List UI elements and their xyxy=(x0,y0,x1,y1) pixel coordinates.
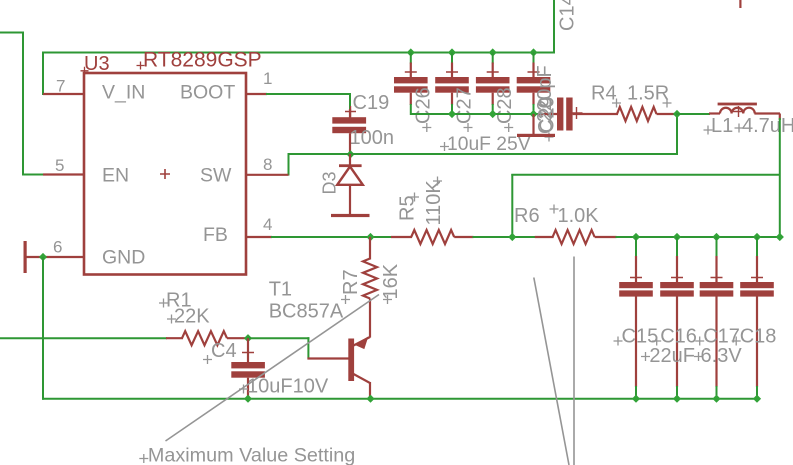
junction T1 collector on GND xyxy=(366,395,374,403)
capacitor C20 top lead green xyxy=(533,53,535,64)
C26 label cross xyxy=(422,123,431,132)
capacitor C16 plus mark xyxy=(671,272,683,284)
C15 label cross xyxy=(614,337,623,346)
wire cap bank bottom horizontal xyxy=(411,113,540,115)
wire FB net from pin 4 xyxy=(271,236,392,238)
resistor R4 right lead xyxy=(657,113,679,115)
wire feedback horizontal xyxy=(511,174,780,176)
svg-text:22K: 22K xyxy=(174,306,210,328)
inductor L1 bar xyxy=(718,103,757,106)
svg-text:8: 8 xyxy=(263,155,272,174)
ground bar at pin 6 xyxy=(24,241,27,273)
wire feedback vertical left xyxy=(511,174,513,238)
wire EN net top-left horizontal xyxy=(0,32,23,34)
C16 label cross xyxy=(652,337,661,346)
wire BOOT net vertical to C19 xyxy=(349,93,351,110)
svg-text:10uF10V: 10uF10V xyxy=(247,376,329,398)
capacitor C28 top lead green xyxy=(492,53,494,64)
capacitor C16 bottom lead green xyxy=(676,386,678,399)
capacitor C17 plus mark xyxy=(711,272,723,284)
R1 label cross xyxy=(159,299,168,308)
capacitor C4 bottom lead xyxy=(247,378,249,399)
pin 1 stub of U3 xyxy=(246,93,267,95)
ground bar below D3 xyxy=(331,214,370,217)
capacitor C20 bottom lead green xyxy=(533,104,535,115)
annotation pointer line Maximum Value Setting xyxy=(166,295,380,442)
capacitor C15 bottom plate xyxy=(619,290,653,296)
junction VIN at C26 xyxy=(407,48,415,56)
svg-text:1.5R: 1.5R xyxy=(627,83,669,105)
capacitor C17 top lead green xyxy=(716,237,718,257)
capacitor C16 top lead xyxy=(676,256,678,283)
C28 label cross xyxy=(504,123,513,132)
wire SW net elbow down to pin 8 xyxy=(288,153,290,176)
svg-text:4: 4 xyxy=(263,215,272,234)
1.0K label cross xyxy=(550,205,559,214)
capacitor C29 left lead xyxy=(539,113,558,115)
10uF25V label cross xyxy=(440,142,449,151)
svg-text:C19: C19 xyxy=(353,92,390,114)
capacitor C27 bottom plate xyxy=(435,86,469,92)
transistor T1 emitter arrow xyxy=(356,338,368,349)
wire SW net horizontal xyxy=(289,153,678,155)
capacitor C15 bottom lead green xyxy=(635,386,637,399)
resistor R5 right lead xyxy=(454,236,473,238)
resistor R7 top lead xyxy=(369,237,371,260)
wire GND net left vertical xyxy=(42,257,44,400)
capacitor C26 bottom plate xyxy=(394,86,428,92)
junction C18 bottom on GND xyxy=(753,395,761,403)
C18 label cross xyxy=(732,337,741,346)
junction output right corner xyxy=(776,233,784,241)
capacitor C18 bottom plate xyxy=(740,290,774,296)
R7 label cross xyxy=(341,295,350,304)
transistor T1 collector lead xyxy=(369,382,371,400)
capacitor C27 top lead green xyxy=(451,53,453,64)
C17 label cross xyxy=(695,337,704,346)
annotation pointer line vertical xyxy=(573,257,575,465)
wire FB mid segment xyxy=(473,236,536,238)
wire base net horizontal xyxy=(247,337,309,339)
wire EN net to pin 5 xyxy=(22,174,44,176)
capacitor C28 bottom plate xyxy=(476,86,510,92)
wire SW net rise to R4 output xyxy=(676,114,678,155)
resistor R5 body xyxy=(411,230,454,244)
svg-text:C14: C14 xyxy=(557,0,579,31)
capacitor C29 plus mark xyxy=(571,107,583,119)
svg-text:BC857A: BC857A xyxy=(269,301,344,323)
C4 label cross xyxy=(203,355,212,364)
svg-text:T1: T1 xyxy=(269,279,292,301)
diode D3 top lead xyxy=(349,154,351,165)
resistor R1 body xyxy=(182,331,227,345)
6.3V label cross xyxy=(694,352,703,361)
svg-text:R6: R6 xyxy=(514,205,540,227)
junction SW net below C19 xyxy=(346,150,354,158)
junction VIN at C20 xyxy=(529,48,537,56)
10uF10V label cross xyxy=(239,385,248,394)
capacitor C29 right plate xyxy=(566,98,572,131)
capacitor C29 left plate xyxy=(557,98,563,131)
capacitor C26 top plate xyxy=(394,77,428,83)
wire VIN net horizontal above U3 xyxy=(42,52,555,54)
capacitor C28 top plate xyxy=(476,77,510,83)
transistor T1 collector segment xyxy=(354,374,371,383)
capacitor C27 bottom lead xyxy=(451,93,453,105)
svg-text:1: 1 xyxy=(263,69,272,88)
R4 label cross xyxy=(612,99,621,108)
svg-text:D3: D3 xyxy=(320,171,340,194)
junction VIN at C28 xyxy=(489,48,497,56)
svg-text:Maximum Value Setting: Maximum Value Setting xyxy=(148,445,355,465)
resistor R6 right lead xyxy=(595,236,617,238)
capacitor C27 top plate xyxy=(435,77,469,83)
R5 label cross xyxy=(410,193,419,202)
capacitor C15 top plate xyxy=(619,282,653,288)
pin 6 stub of U3 xyxy=(25,256,84,258)
capacitor C19 plus mark xyxy=(345,106,356,117)
capacitor C16 bottom lead xyxy=(676,297,678,388)
capacitor C26 top lead green xyxy=(410,53,412,64)
junction C17 bottom on GND xyxy=(712,395,720,403)
capacitor C18 bottom lead green xyxy=(756,386,758,399)
capacitor C27 top lead xyxy=(451,63,453,78)
resistor R5 left lead xyxy=(391,236,412,238)
capacitor C15 plus mark xyxy=(630,272,642,284)
110K label cross xyxy=(433,177,442,186)
junction FB at feedback xyxy=(508,233,516,241)
16K label cross xyxy=(383,295,392,304)
svg-text:220pF: 220pF xyxy=(534,65,556,122)
pin 8 stub of U3 xyxy=(246,174,289,176)
red tick top edge xyxy=(739,0,741,8)
diode D3 anode lead xyxy=(349,185,351,215)
junction cap bank bottom xyxy=(489,110,497,118)
pin 4 stub of U3 xyxy=(246,236,272,238)
inductor L1 right lead xyxy=(754,112,780,114)
junction VIN at C27 xyxy=(448,48,456,56)
C20 label cross xyxy=(545,133,554,142)
svg-text:C27: C27 xyxy=(454,87,476,124)
wire output right vertical red part xyxy=(779,114,781,121)
capacitor C18 plus mark xyxy=(751,272,763,284)
capacitor C17 top plate xyxy=(700,282,734,288)
wire GND net bottom horizontal xyxy=(42,398,757,400)
svg-text:6: 6 xyxy=(53,238,62,257)
IC U3 origin cross xyxy=(81,67,89,75)
capacitor C16 top lead green xyxy=(676,237,678,257)
diode D3 triangle xyxy=(337,167,363,185)
junction cap bank bottom xyxy=(529,110,537,118)
svg-text:GND: GND xyxy=(102,247,145,269)
capacitor C28 top lead xyxy=(492,63,494,78)
junction output at C18 xyxy=(753,233,761,241)
junction output at C16 xyxy=(673,233,681,241)
wire to C14 (off-sheet) riser xyxy=(553,0,555,54)
annotation pointer line slanted xyxy=(534,278,569,465)
svg-text:C28: C28 xyxy=(494,87,516,124)
resistor R7 bottom lead xyxy=(369,299,371,338)
svg-text:100n: 100n xyxy=(350,127,395,149)
svg-text:L1: L1 xyxy=(711,115,733,137)
svg-text:BOOT: BOOT xyxy=(180,82,235,104)
inductor L1 coils xyxy=(720,108,755,114)
svg-text:R4: R4 xyxy=(591,83,617,105)
capacitor C15 top lead xyxy=(635,256,637,283)
svg-text:7: 7 xyxy=(56,77,65,96)
wire output right vertical xyxy=(779,118,781,238)
wire R1 net left xyxy=(0,337,167,339)
capacitor C26 top lead xyxy=(410,63,412,78)
svg-text:10uF 25V: 10uF 25V xyxy=(447,134,531,155)
inductor L1 cross xyxy=(733,106,744,117)
ground bar below cap bank xyxy=(517,134,555,137)
junction at pin 6 xyxy=(39,253,47,261)
capacitor C17 bottom lead xyxy=(715,297,717,388)
capacitor C19 bottom lead xyxy=(349,133,351,154)
22K label cross xyxy=(167,315,176,324)
capacitor C18 top lead xyxy=(756,256,758,283)
capacitor C28 bottom lead xyxy=(492,93,494,105)
transistor T1 base bar xyxy=(348,339,354,382)
diode D3 cathode bar xyxy=(339,164,362,167)
resistor R1 left lead xyxy=(166,337,183,339)
resistor R7 body xyxy=(363,259,377,299)
inductor L1 left lead xyxy=(709,112,720,114)
capacitor C19 top plate xyxy=(332,117,366,123)
capacitor C4 plus mark xyxy=(242,347,254,359)
svg-text:4.7uH: 4.7uH xyxy=(742,115,793,137)
svg-text:C4: C4 xyxy=(211,340,237,362)
capacitor C17 bottom plate xyxy=(700,290,734,296)
capacitor C27 plus mark xyxy=(446,66,458,78)
4.7uH label cross xyxy=(735,124,744,133)
IC center cross xyxy=(160,169,170,179)
svg-text:1.0K: 1.0K xyxy=(558,205,600,227)
C27 label cross xyxy=(464,123,473,132)
svg-text:R7: R7 xyxy=(340,269,362,295)
wire base net vertical xyxy=(307,337,309,358)
wire R4 junction to L1 xyxy=(676,113,710,115)
junction FB at R7 xyxy=(366,233,374,241)
junction output at C15 xyxy=(632,233,640,241)
resistor R6 body xyxy=(553,230,595,244)
capacitor C18 top lead green xyxy=(756,237,758,257)
svg-text:5: 5 xyxy=(55,156,64,175)
capacitor C28 plus mark xyxy=(487,66,499,78)
IC value origin cross xyxy=(137,62,145,70)
IC U3 RT8289GSP body xyxy=(84,73,246,275)
ground lead below cap bank xyxy=(532,114,534,134)
svg-text:C18: C18 xyxy=(740,326,777,348)
capacitor C19 top lead xyxy=(349,109,351,118)
junction R1 C4 base xyxy=(244,334,252,342)
capacitor C26 plus mark xyxy=(405,66,417,78)
1.5R label cross xyxy=(663,99,672,108)
wire VIN net drop to pin 7 xyxy=(42,52,44,96)
capacitor C28 bottom lead green xyxy=(492,104,494,115)
pin 5 stub of U3 xyxy=(43,173,84,175)
capacitor C16 bottom plate xyxy=(660,290,694,296)
capacitor C20 bottom lead xyxy=(532,93,534,105)
22uF label cross xyxy=(641,352,650,361)
capacitor C4 top plate xyxy=(231,362,265,368)
svg-text:110K: 110K xyxy=(423,180,445,226)
svg-text:U3: U3 xyxy=(84,53,110,75)
capacitor C27 bottom lead green xyxy=(451,104,453,115)
resistor R4 body xyxy=(617,107,657,121)
L1 label cross xyxy=(704,126,713,135)
transistor T1 emitter segment xyxy=(354,337,371,346)
capacitor C20 top plate xyxy=(517,77,551,83)
Maximum label cross xyxy=(139,454,148,463)
capacitor C20 top lead xyxy=(532,63,534,78)
capacitor C26 bottom lead xyxy=(410,93,412,105)
transistor T1 base lead xyxy=(307,357,348,359)
junction C16 bottom on GND xyxy=(673,395,681,403)
capacitor C20 plus mark xyxy=(528,66,540,78)
capacitor C15 top lead green xyxy=(635,237,637,257)
capacitor C17 bottom lead green xyxy=(716,386,718,399)
pin 7 stub of U3 xyxy=(43,93,84,95)
svg-text:RT8289GSP: RT8289GSP xyxy=(143,49,262,72)
resistor R6 left lead xyxy=(535,236,554,238)
capacitor C18 bottom lead xyxy=(756,297,758,388)
capacitor C4 bottom plate xyxy=(231,371,265,377)
wire output bottom horizontal xyxy=(616,236,781,238)
capacitor C29 right lead xyxy=(573,113,618,115)
svg-text:EN: EN xyxy=(102,165,129,187)
svg-text:16K: 16K xyxy=(380,263,402,299)
resistor R1 right lead xyxy=(227,337,249,339)
capacitor C16 top plate xyxy=(660,282,694,288)
junction cap bank bottom xyxy=(448,110,456,118)
svg-text:C26: C26 xyxy=(412,87,434,124)
capacitor C26 bottom lead green xyxy=(410,104,412,115)
capacitor C19 bottom plate xyxy=(332,127,366,133)
junction C4 bottom on GND xyxy=(244,395,252,403)
capacitor C20 bottom plate xyxy=(517,86,551,92)
svg-text:FB: FB xyxy=(203,224,228,246)
wire EN net left vertical xyxy=(22,32,24,176)
junction C15 bottom on GND xyxy=(632,395,640,403)
junction R4 output xyxy=(673,110,681,118)
svg-text:V_IN: V_IN xyxy=(102,82,145,104)
capacitor C18 top plate xyxy=(740,282,774,288)
capacitor C15 bottom lead xyxy=(635,297,637,388)
capacitor C4 top lead xyxy=(247,338,249,362)
junction output at C17 xyxy=(712,233,720,241)
wire BOOT net horizontal xyxy=(266,93,350,95)
svg-text:SW: SW xyxy=(200,165,232,187)
capacitor C17 top lead xyxy=(715,256,717,283)
